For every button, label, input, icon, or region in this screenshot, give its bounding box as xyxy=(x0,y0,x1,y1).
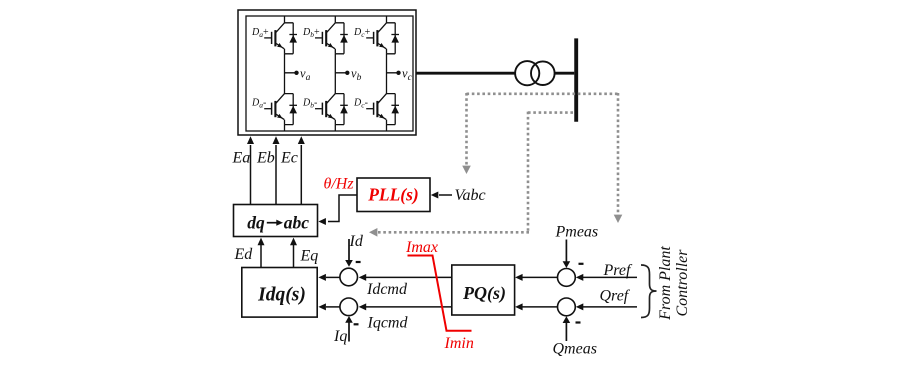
svg-text:Eq: Eq xyxy=(300,248,319,265)
svg-text:dq: dq xyxy=(247,213,265,233)
svg-text:abc: abc xyxy=(284,213,310,233)
svg-text:From Plant: From Plant xyxy=(657,246,674,321)
svg-text:Pref: Pref xyxy=(603,262,634,279)
svg-text:Imax: Imax xyxy=(405,239,438,256)
svg-text:Ec: Ec xyxy=(280,149,298,166)
svg-text:Idcmd: Idcmd xyxy=(366,281,408,298)
svg-text:Db-: Db- xyxy=(302,98,317,110)
svg-text:Idq(s): Idq(s) xyxy=(257,285,306,306)
svg-text:Qref: Qref xyxy=(600,288,631,305)
svg-text:va: va xyxy=(300,67,311,83)
svg-text:Ed: Ed xyxy=(234,246,254,263)
svg-text:Id: Id xyxy=(349,233,364,250)
svg-text:Da+: Da+ xyxy=(251,27,269,39)
svg-text:Dc-: Dc- xyxy=(353,98,368,110)
svg-text:Imin: Imin xyxy=(444,335,474,352)
svg-text:PLL(s): PLL(s) xyxy=(367,185,419,205)
svg-text:Qmeas: Qmeas xyxy=(553,341,597,358)
svg-text:Pmeas: Pmeas xyxy=(555,223,599,240)
svg-text:Ea: Ea xyxy=(232,149,251,166)
svg-text:Vabc: Vabc xyxy=(455,187,486,204)
svg-text:Dc+: Dc+ xyxy=(353,27,371,39)
svg-text:PQ(s): PQ(s) xyxy=(462,283,506,304)
svg-text:Da-: Da- xyxy=(251,98,266,110)
svg-text:θ/Hz: θ/Hz xyxy=(324,176,355,193)
svg-text:Db+: Db+ xyxy=(302,27,320,39)
svg-text:Iq: Iq xyxy=(333,328,347,345)
svg-text:vc: vc xyxy=(402,67,413,83)
svg-text:Eb: Eb xyxy=(256,149,275,166)
svg-text:Iqcmd: Iqcmd xyxy=(367,315,409,332)
svg-text:vb: vb xyxy=(351,67,362,83)
svg-text:Controller: Controller xyxy=(674,249,691,317)
